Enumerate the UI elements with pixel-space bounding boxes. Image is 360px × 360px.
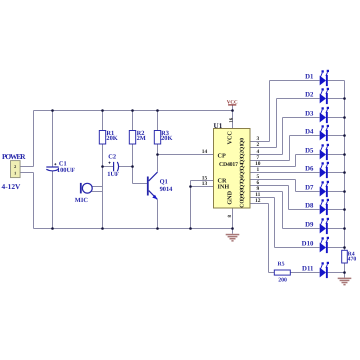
LED D5 <box>320 144 329 160</box>
svg-text:POWER: POWER <box>2 152 26 161</box>
wire: VCC symbol stub <box>232 105 234 110</box>
svg-text:2M: 2M <box>137 135 146 142</box>
transistor Q1 (9014 NPN) <box>147 172 158 199</box>
junction <box>101 109 104 112</box>
wire: Q2 output to LED D3 <box>250 154 283 156</box>
wire: pin 8 lead from IC bottom to ground <box>232 208 234 234</box>
svg-text:MIC: MIC <box>75 197 89 204</box>
svg-text:INH: INH <box>218 183 230 190</box>
wire: C2 left lead <box>103 166 114 168</box>
svg-text:C2: C2 <box>108 153 116 160</box>
wire: VCC top rail <box>34 110 233 112</box>
wire: R5 to D11 anode <box>290 272 319 274</box>
junction <box>101 227 104 230</box>
wire: R2 bottom lead down to base node <box>132 144 134 184</box>
wire: R1 bottom lead / mic node vertical <box>102 144 104 229</box>
wire: Q3 output to LED D4 <box>250 160 290 162</box>
wire: D5 cathode to LED bus <box>328 154 345 156</box>
junction <box>131 109 134 112</box>
wire: D1 cathode to LED bus <box>328 80 345 82</box>
wire: R2 top lead <box>132 111 134 131</box>
LED D10 <box>320 237 329 253</box>
svg-text:D2: D2 <box>305 92 314 99</box>
svg-text:Q1: Q1 <box>160 179 168 186</box>
wire: Q4 output to LED D5 <box>250 166 296 168</box>
svg-text:D8: D8 <box>305 203 314 210</box>
junction <box>343 153 346 156</box>
svg-text:2: 2 <box>14 164 16 169</box>
wire: CR/INH vertical to bottom rail <box>190 181 192 229</box>
svg-text:GND: GND <box>226 190 233 204</box>
svg-text:D6: D6 <box>305 166 314 173</box>
junction <box>343 116 346 119</box>
wire: left vertical from POWER pin 2 up to top rail <box>33 111 35 167</box>
wire: R1 top lead <box>102 111 104 131</box>
svg-text:20K: 20K <box>161 135 172 142</box>
wire: D4 cathode to LED bus <box>328 135 345 137</box>
op-amp/counter IC U1 CD4017 body <box>214 129 251 209</box>
junction <box>231 109 234 112</box>
ground (R4 / D11 cathode) <box>338 278 352 286</box>
wire: C1 bottom lead <box>52 171 54 228</box>
junction <box>51 227 54 230</box>
wire: R3 top lead <box>157 111 159 131</box>
wire: Q0 output to LED D1 <box>250 141 270 143</box>
wire: MIC top terminal stub <box>92 186 103 188</box>
junction <box>231 227 234 230</box>
wire: D8 cathode to LED bus <box>328 209 345 211</box>
wire: CO pin 12 to R5 <box>250 203 269 205</box>
wire: D11 cathode to R4 bottom node <box>328 272 345 274</box>
svg-text:D5: D5 <box>305 148 314 155</box>
wire: POWER pin 1 stub <box>20 172 33 174</box>
svg-text:Q5: Q5 <box>240 169 246 176</box>
svg-text:16: 16 <box>229 117 235 123</box>
junction <box>189 227 192 230</box>
wire: INH pin 13 wire <box>191 186 214 188</box>
wire: D7 cathode to LED bus <box>328 191 345 193</box>
capacitor C1 (100UF electrolytic) <box>46 163 58 171</box>
LED D11 <box>320 262 329 278</box>
svg-text:U1: U1 <box>214 122 223 130</box>
wire: ground bottom rail <box>34 228 233 230</box>
junction <box>343 208 346 211</box>
junction <box>156 227 159 230</box>
resistor R5 <box>274 270 290 275</box>
svg-text:D3: D3 <box>305 111 314 118</box>
wire: Q6 output to LED D7 <box>250 179 296 181</box>
junction <box>51 109 54 112</box>
junction <box>131 165 134 168</box>
svg-text:CD4017: CD4017 <box>219 162 238 168</box>
LED D2 <box>320 88 329 104</box>
wire: D10 cathode to LED bus <box>328 247 345 249</box>
junction <box>343 134 346 137</box>
wire: D3 cathode to LED bus <box>328 117 345 119</box>
wire: left vertical from POWER pin 1 down to bottom rail <box>33 173 35 229</box>
junction <box>343 171 346 174</box>
junction <box>343 271 346 274</box>
svg-text:2: 2 <box>256 142 259 148</box>
svg-text:14: 14 <box>202 149 208 155</box>
wire: pin 16 lead into IC top <box>232 111 234 129</box>
resistor R4 <box>342 250 348 263</box>
LED D6 <box>320 162 329 178</box>
svg-text:100UF: 100UF <box>57 167 75 174</box>
wire: C2 right lead <box>119 166 133 168</box>
LED D3 <box>320 107 329 123</box>
wire: Q1 emitter vertical to bottom rail <box>157 200 159 229</box>
resistor R3 <box>154 131 160 145</box>
LED D4 <box>320 125 329 141</box>
svg-text:200: 200 <box>278 278 287 284</box>
LED D9 <box>320 218 329 234</box>
svg-text:D4: D4 <box>305 129 314 136</box>
svg-text:CP: CP <box>218 152 226 159</box>
LED D7 <box>320 181 329 197</box>
svg-text:1: 1 <box>14 171 16 176</box>
wire: R4 bottom lead to ground <box>344 263 346 278</box>
wire: Q1 output to LED D2 <box>250 147 277 149</box>
resistor R1 <box>99 131 105 145</box>
svg-text:12: 12 <box>255 198 261 204</box>
svg-text:D11: D11 <box>302 266 314 273</box>
wire: R3 bottom lead to Q1 collector <box>157 144 159 172</box>
svg-text:1: 1 <box>256 167 259 173</box>
svg-text:CO: CO <box>240 199 246 208</box>
junction <box>343 227 346 230</box>
LED D1 <box>320 70 329 86</box>
wire: D2 cathode to LED bus <box>328 98 345 100</box>
wire: D9 cathode to LED bus <box>328 228 345 230</box>
wire: POWER pin 2 stub <box>20 166 33 168</box>
wire: Q8 output to LED D9 <box>250 191 283 193</box>
wire: C1 top lead <box>52 111 54 168</box>
svg-text:D10: D10 <box>302 241 314 248</box>
junction <box>343 190 346 193</box>
junction <box>343 97 346 100</box>
junction <box>156 153 159 156</box>
svg-text:D1: D1 <box>305 74 314 81</box>
connector POWER J1 <box>11 161 21 178</box>
capacitor C2 (1UF) <box>108 162 118 172</box>
wire: Q7 output to LED D8 <box>250 185 289 187</box>
svg-text:4-12V: 4-12V <box>2 182 22 191</box>
LED D8 <box>320 199 329 215</box>
svg-text:470: 470 <box>348 257 357 263</box>
wire: MIC bottom terminal stub <box>92 191 103 193</box>
svg-text:20K: 20K <box>106 135 117 142</box>
junction <box>101 165 104 168</box>
junction <box>156 109 159 112</box>
wire: LED cathode bus vertical <box>344 81 346 251</box>
svg-text:Q1: Q1 <box>240 144 246 151</box>
svg-text:R5: R5 <box>278 262 285 268</box>
svg-text:13: 13 <box>202 181 208 187</box>
microphone MIC <box>81 183 92 194</box>
wire: Q9 output to LED D10 <box>250 197 275 199</box>
wire: Q5 output to LED D6 <box>250 172 320 174</box>
wire: CP pin 14 wire to IC <box>158 154 214 156</box>
svg-text:9014: 9014 <box>160 186 174 193</box>
svg-text:1UF: 1UF <box>107 171 119 178</box>
wire: Q1 base wire <box>133 183 148 185</box>
svg-text:D7: D7 <box>305 185 314 192</box>
svg-text:VCC: VCC <box>226 131 233 144</box>
wire: CR pin 15 wire <box>191 180 214 182</box>
power symbol VCC <box>227 99 238 105</box>
wire: D6 cathode to LED bus <box>328 172 345 174</box>
ground (IC pin 8 / bottom rail) <box>226 234 240 242</box>
resistor R2 <box>129 131 135 145</box>
junction <box>189 185 192 188</box>
svg-text:D9: D9 <box>305 222 314 229</box>
junction <box>343 246 346 249</box>
